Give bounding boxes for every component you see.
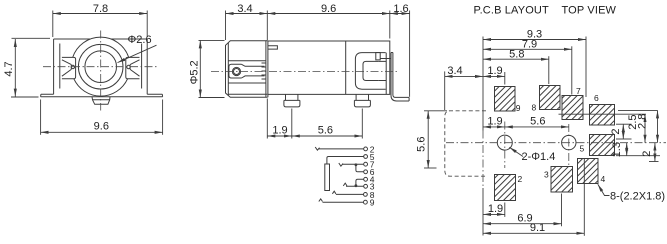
pcb layout: dimension 5.6 middle (505, 116, 569, 128)
svg-text:P.C.B LAYOUT: P.C.B LAYOUT (474, 5, 549, 17)
front view: left spring clip (62, 57, 76, 78)
schematic: pin 5 wire (327, 152, 375, 164)
pcb layout: dimension 9.3 (483, 29, 586, 97)
pcb layout: right reference line body-top (618, 109, 658, 111)
svg-text:2: 2 (518, 174, 523, 184)
front view: inner wall lines (60, 44, 142, 89)
pcb layout: hole 1 (497, 135, 512, 150)
pcb layout: dimension 1.9 middle (483, 116, 505, 128)
pcb layout: hole 1 centerline vertical (504, 122, 506, 169)
side view: dimension 5.6 (292, 109, 363, 139)
svg-text:5.6: 5.6 (318, 125, 333, 137)
svg-text:6: 6 (594, 93, 599, 103)
pcb layout: pad 9 (495, 87, 516, 112)
side view: body inner vertical (345, 41, 347, 94)
schematic: pin 4 wire (356, 175, 375, 187)
svg-text:9.6: 9.6 (321, 3, 336, 15)
pcb layout: right reference line pad4-top (649, 161, 659, 163)
front view: base flange (41, 94, 163, 97)
svg-text:1.9: 1.9 (487, 116, 502, 128)
svg-text:9.1: 9.1 (530, 222, 545, 234)
schematic: pin 7 wire and switch mark (339, 160, 375, 170)
front view: middle barrel circle (78, 44, 123, 89)
pcb layout: dimension 2.8 (637, 110, 658, 142)
schematic: pin 8 wire and switch mark (332, 190, 374, 200)
pcb layout: pad 8 (540, 86, 561, 110)
side view: dimension 1.9 (267, 99, 292, 139)
side view: rear terminal bracket (391, 53, 409, 102)
pcb layout: right reference line pad6-bottom (616, 123, 632, 125)
svg-text:2: 2 (641, 151, 653, 157)
schematic: pin 6 wire (356, 164, 375, 177)
front view: vertical centerline (100, 31, 102, 111)
front view: dimension 4.7 (3, 38, 50, 97)
side view: front cap outline (226, 41, 268, 98)
schematic: pin 9 wire and switch mark (319, 198, 375, 208)
front view: dimension 9.6 (41, 100, 163, 135)
svg-text:7: 7 (576, 86, 581, 96)
svg-text:9.6: 9.6 (94, 120, 109, 132)
front view: bottom tab (92, 97, 110, 105)
pcb layout: dimension 3.4 (445, 65, 483, 110)
svg-text:4.7: 4.7 (3, 61, 15, 76)
svg-text:5.6: 5.6 (416, 137, 428, 152)
front view: body side walls (54, 39, 148, 94)
side view: latch connector line (380, 58, 391, 60)
svg-text:1.9: 1.9 (272, 125, 287, 137)
svg-text:1.9: 1.9 (487, 65, 502, 77)
svg-text:2-Φ1.4: 2-Φ1.4 (522, 151, 556, 163)
pcb layout: dashed body outline (445, 111, 486, 176)
front view: right spring clip (126, 57, 140, 78)
side view: horizontal centerline (211, 71, 399, 73)
svg-text:5: 5 (580, 144, 585, 154)
svg-text:Φ5.2: Φ5.2 (188, 60, 200, 84)
svg-text:1.3: 1.3 (611, 142, 623, 157)
side view: small top tab (268, 46, 278, 49)
front view: outer barrel arc top (73, 37, 129, 57)
pcb layout: dimension 2.5 (627, 114, 645, 143)
side view: slot rivet circles (232, 67, 240, 75)
pcb layout: dimension 2 lower (641, 143, 655, 162)
svg-text:8-(2.2X1.8): 8-(2.2X1.8) (610, 190, 665, 202)
front view: inner hole circle (2.6) (85, 51, 117, 83)
svg-text:3.4: 3.4 (447, 65, 462, 77)
schematic: sleeve rectangle (325, 164, 330, 191)
pcb layout: right reference line pad5-bottom (616, 155, 660, 157)
pcb layout: dimension 1.9 top (483, 37, 505, 131)
pcb layout: pad 6 (590, 105, 615, 126)
pcb layout: hole 2 centerline vertical (568, 124, 570, 165)
svg-text:3: 3 (544, 170, 549, 180)
svg-text:2: 2 (610, 128, 622, 134)
pcb layout: dimension 6.9 (483, 194, 562, 227)
front view: horizontal centerline (43, 66, 159, 68)
front view: body top edge (54, 38, 148, 40)
front view: label 2.6 with leader (118, 34, 157, 63)
svg-text:5.6: 5.6 (530, 116, 545, 128)
side view: rear C-clip inner (363, 61, 379, 80)
side view: C-clip right connectors (379, 53, 386, 95)
side view: latch rectangle (376, 53, 380, 60)
side view: foot 2 (354, 94, 370, 107)
pcb layout: pad 5 (590, 135, 615, 156)
side view: cap inner edge line (227, 43, 229, 96)
side view: cap slot window (229, 64, 265, 78)
front view: dimension 7.8 (53, 3, 147, 37)
pcb layout: dimension 5.8 (483, 48, 549, 84)
svg-text:9: 9 (516, 103, 521, 113)
pcb layout: label 2-phi1.4 with leader (509, 147, 555, 163)
side view: cap band lines (228, 61, 267, 95)
side view: joint serration ticks (262, 63, 267, 79)
pcb layout: left reference centerline (482, 131, 484, 189)
pcb layout: right reference line pad5-top (616, 138, 632, 140)
pcb layout: dimension 1.9 bottom (483, 203, 505, 217)
schematic: pin 2 wire and switch mark (315, 144, 375, 154)
svg-text:2.8: 2.8 (637, 114, 649, 129)
pcb layout: dimension 7.9 (483, 38, 572, 94)
svg-text:5.8: 5.8 (509, 48, 524, 60)
side view: rear C-clip outer (355, 53, 385, 90)
pcb layout: pad 4 (578, 159, 599, 184)
pcb layout: hole 2 (562, 135, 576, 149)
svg-text:7.8: 7.8 (93, 3, 108, 15)
pcb layout: horizontal centerline (446, 142, 666, 144)
side view: joint double line (266, 41, 268, 98)
pcb layout: dimension 5.6 vertical left (416, 111, 447, 168)
schematic: pin 3 wire and switch mark (343, 182, 375, 192)
pcb layout: pad 3 (551, 167, 573, 193)
svg-text:8: 8 (532, 103, 537, 113)
side view: dimension 5.2 (188, 40, 224, 97)
side view: dimension 1.6 (390, 3, 410, 97)
svg-text:9: 9 (370, 198, 375, 208)
side view: dimension 9.6 (267, 3, 390, 41)
pcb layout: right reference line pad8-bottom (559, 113, 647, 115)
side view: main body outline (268, 41, 390, 94)
svg-text:Φ2.6: Φ2.6 (128, 34, 152, 46)
pcb layout: dimension 1.3 (611, 142, 627, 157)
svg-text:1.6: 1.6 (393, 3, 408, 15)
svg-text:4: 4 (601, 174, 606, 184)
svg-text:1.9: 1.9 (488, 203, 503, 215)
svg-text:3.4: 3.4 (237, 3, 252, 15)
side view: dimension 3.4 (226, 3, 268, 40)
front view: outer barrel arc bottom (74, 79, 128, 96)
pcb layout: label 8-(2.2X1.8) with leader (598, 184, 665, 202)
pcb layout: dimension 9.1 (483, 159, 584, 236)
svg-text:TOP VIEW: TOP VIEW (562, 5, 617, 17)
side view: foot 1 (284, 94, 300, 107)
pcb layout: pad 7 (562, 96, 583, 120)
pcb layout: dimension 2 upper (610, 124, 623, 139)
pcb layout: pad 2 (495, 175, 516, 201)
pcb layout: left reference extension bottom (482, 188, 484, 236)
